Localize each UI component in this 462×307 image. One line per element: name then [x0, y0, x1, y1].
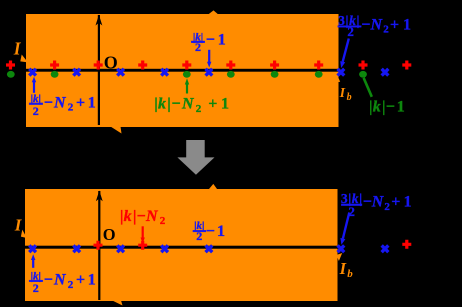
svg-text:2: 2: [33, 281, 39, 295]
svg-text:I: I: [13, 39, 22, 59]
svg-text:b: b: [347, 92, 352, 103]
svg-text:2: 2: [33, 104, 39, 118]
svg-text:I: I: [339, 86, 346, 101]
svg-text:b: b: [347, 268, 353, 280]
svg-text:2: 2: [196, 229, 202, 243]
svg-text:O: O: [103, 225, 116, 244]
svg-text:2: 2: [348, 204, 355, 219]
svg-text:2: 2: [347, 24, 354, 39]
svg-text:|k|−1: |k|−1: [369, 99, 405, 116]
svg-text:2: 2: [195, 40, 201, 54]
svg-text:I: I: [339, 259, 347, 278]
svg-text:O: O: [104, 52, 118, 72]
